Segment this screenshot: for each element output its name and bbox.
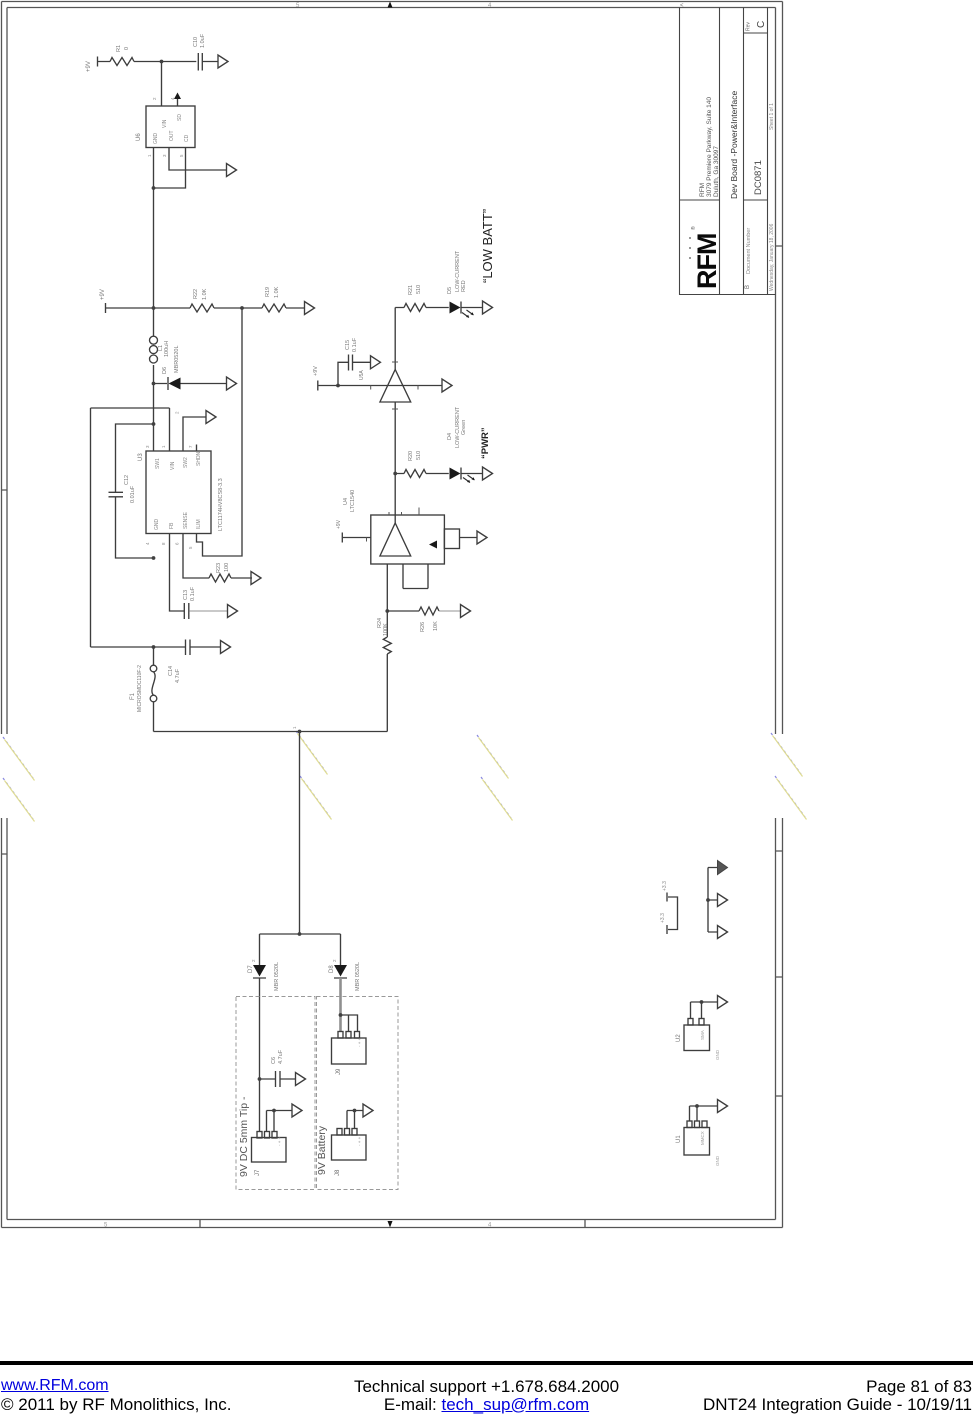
svg-text:R22: R22 (193, 289, 199, 299)
svg-text:Dev Board -Power&Interface: Dev Board -Power&Interface (729, 91, 739, 199)
svg-text:510: 510 (416, 451, 422, 460)
svg-text:1: 1 (161, 445, 166, 448)
svg-text:J8: J8 (335, 1169, 341, 1176)
svg-text:1: 1 (292, 726, 297, 729)
svg-text:+9V: +9V (313, 366, 319, 376)
svg-text:0.1uF: 0.1uF (190, 586, 196, 601)
svg-text:510: 510 (416, 285, 422, 294)
svg-text:U3: U3 (138, 453, 144, 461)
svg-text:5: 5 (188, 546, 193, 549)
svg-text:4: 4 (145, 542, 150, 545)
svg-text:GND: GND (715, 1049, 720, 1060)
svg-text:VIN: VIN (170, 461, 176, 470)
svg-text:F1: F1 (130, 692, 136, 700)
svg-text:D4: D4 (447, 433, 453, 440)
svg-text:4: 4 (170, 97, 175, 100)
svg-text:J9: J9 (336, 1068, 342, 1075)
svg-text:7: 7 (188, 445, 193, 448)
svg-text:GND: GND (153, 133, 159, 145)
svg-text:U6: U6 (136, 133, 142, 141)
svg-text:MBR0520L: MBR0520L (174, 345, 180, 373)
svg-text:SW1: SW1 (155, 458, 161, 469)
svg-text:C6: C6 (271, 1057, 277, 1064)
svg-text:Rev: Rev (746, 22, 752, 31)
svg-text:CD: CD (184, 134, 190, 142)
svg-text:2: 2 (251, 959, 256, 962)
svg-text:+3.3: +3.3 (660, 913, 666, 923)
svg-text:DC0871: DC0871 (753, 160, 764, 195)
svg-text:SW2: SW2 (183, 457, 189, 468)
svg-text:D5: D5 (447, 287, 453, 294)
svg-text:6: 6 (175, 542, 180, 545)
svg-text:“PWR”: “PWR” (480, 427, 491, 459)
svg-text:U2: U2 (676, 1034, 682, 1042)
svg-text:R26: R26 (420, 622, 426, 632)
svg-text:Duluth, Ga 30097: Duluth, Ga 30097 (713, 146, 720, 197)
svg-text:U5A: U5A (359, 370, 365, 380)
svg-text:LTC1540: LTC1540 (350, 490, 356, 512)
svg-text:C12: C12 (124, 475, 130, 485)
svg-text:- + +: - + + (357, 1037, 362, 1047)
svg-text:R23: R23 (216, 563, 222, 573)
svg-text:+3.3: +3.3 (662, 881, 668, 891)
svg-text:®: ® (690, 226, 697, 230)
svg-text:- + +: - + + (357, 1136, 362, 1146)
svg-text:R1: R1 (116, 45, 122, 52)
svg-text:R19: R19 (265, 287, 271, 297)
svg-text:MBR 0520L: MBR 0520L (274, 962, 280, 991)
svg-text:SHDN: SHDN (196, 451, 202, 466)
svg-text:0.01uF: 0.01uF (130, 485, 136, 503)
svg-text:RFM: RFM (699, 183, 706, 197)
svg-text:9V Battery: 9V Battery (316, 1125, 328, 1175)
svg-text:10K: 10K (433, 621, 439, 631)
svg-text:OUT: OUT (169, 130, 175, 141)
svg-text:FB: FB (169, 522, 175, 529)
svg-text:RFM: RFM (692, 234, 722, 289)
svg-text:J7: J7 (255, 1169, 261, 1176)
svg-text:100uH: 100uH (164, 341, 170, 357)
svg-text:U4: U4 (343, 498, 349, 505)
svg-text:<: < (680, 3, 684, 9)
svg-text:4.7uF: 4.7uF (278, 1049, 284, 1064)
svg-text:D8: D8 (329, 965, 335, 973)
svg-text:U1: U1 (676, 1135, 682, 1143)
svg-text:“LOW BATT”: “LOW BATT” (480, 209, 495, 283)
svg-text:3079 Premiere Parkway, Suite 1: 3079 Premiere Parkway, Suite 140 (706, 97, 713, 197)
svg-text:+9V: +9V (336, 519, 342, 529)
svg-text:5: 5 (179, 154, 184, 157)
svg-text:1: 1 (147, 154, 152, 157)
svg-text:3: 3 (145, 445, 150, 448)
svg-text:2: 2 (175, 411, 180, 414)
svg-text:Document Number: Document Number (746, 228, 752, 274)
svg-text:Sheet 1 of 1: Sheet 1 of 1 (769, 103, 775, 130)
svg-text:RED: RED (461, 280, 467, 292)
svg-text:MICROSMDC110F-2: MICROSMDC110F-2 (137, 665, 143, 712)
svg-text:100K: 100K (383, 623, 389, 636)
svg-text:+9V: +9V (86, 61, 92, 72)
svg-text:VIN: VIN (162, 119, 168, 128)
svg-text:C: C (756, 21, 767, 28)
svg-text:GND: GND (715, 1155, 720, 1166)
svg-text:D7: D7 (248, 965, 254, 973)
svg-text:100: 100 (224, 563, 230, 572)
svg-text:C14: C14 (168, 666, 174, 676)
svg-text:3: 3 (162, 154, 167, 157)
svg-text:B: B (745, 285, 751, 289)
svg-text:C15: C15 (345, 340, 351, 350)
svg-text:- + +: - + + (277, 1136, 282, 1146)
svg-text:MBR 0520L: MBR 0520L (355, 962, 361, 991)
svg-text:Wednesday, January 18, 2006: Wednesday, January 18, 2006 (769, 223, 775, 291)
svg-text:SD: SD (177, 114, 183, 121)
svg-text:1.0uF: 1.0uF (200, 33, 206, 48)
svg-text:C10: C10 (193, 37, 199, 47)
svg-text:8: 8 (161, 542, 166, 545)
svg-text:2: 2 (152, 97, 157, 100)
svg-text:SENSE: SENSE (183, 511, 189, 529)
svg-text:SMA: SMA (700, 1030, 705, 1040)
svg-text:GND: GND (154, 519, 160, 531)
svg-text:0.1uF: 0.1uF (352, 337, 358, 352)
svg-text:9V DC 5mm Tip -: 9V DC 5mm Tip - (238, 1096, 250, 1177)
svg-text:R20: R20 (408, 451, 414, 461)
svg-text:0: 0 (124, 47, 130, 50)
svg-text:ILIM: ILIM (196, 519, 202, 529)
svg-text:1.0K: 1.0K (274, 286, 280, 298)
svg-text:D6: D6 (162, 367, 168, 374)
svg-text:1.0K: 1.0K (202, 288, 208, 300)
svg-text:2: 2 (332, 959, 337, 962)
svg-text:4.7uF: 4.7uF (175, 668, 181, 683)
svg-text:Green: Green (461, 420, 467, 435)
svg-text:MMCX: MMCX (700, 1131, 705, 1145)
svg-text:+9V: +9V (100, 289, 106, 300)
svg-text:R21: R21 (408, 285, 414, 295)
svg-text:LTC1174HV8CS8-3.3: LTC1174HV8CS8-3.3 (218, 478, 224, 531)
svg-text:C13: C13 (183, 590, 189, 600)
